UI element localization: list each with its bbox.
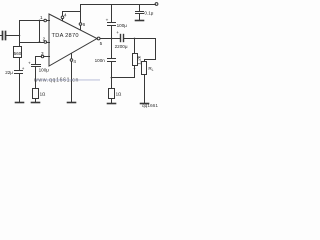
wire 1.2k down and left	[112, 66, 135, 78]
wire pin 1 feed	[20, 20, 44, 22]
terminal supply V+	[155, 3, 158, 6]
svg-text:1Ω: 1Ω	[40, 91, 46, 96]
capacitor 22u plates	[15, 70, 23, 72]
node output junction	[111, 38, 113, 40]
pin 3 circle	[41, 55, 44, 58]
wire zobel column lower	[111, 62, 113, 89]
wire 560 to 22u	[19, 58, 21, 71]
wire output from pin5	[101, 38, 121, 40]
pin 1 circle	[44, 19, 47, 22]
resistor 1.2k box	[133, 54, 138, 66]
svg-text:www.qq1661.cn: www.qq1661.cn	[34, 78, 79, 84]
wire 100u to output junction	[111, 26, 113, 39]
wire 22u to ground	[19, 74, 21, 102]
ground zobel	[108, 103, 116, 105]
wire rail drop to pin 6	[80, 5, 82, 23]
node pin1 tap	[39, 20, 41, 22]
resistor RL box	[142, 62, 147, 75]
wire 0.1u to ground	[139, 14, 141, 21]
wire output corner right edge	[155, 39, 157, 60]
wire pin7 stub	[71, 54, 73, 59]
capacitor 0.1u plates	[136, 11, 144, 13]
wire tap down to pin2 net	[39, 21, 41, 43]
svg-text:6: 6	[83, 22, 86, 27]
wire input to riser	[6, 35, 20, 37]
watermark dash	[36, 79, 101, 82]
ground left resistor	[32, 102, 40, 104]
wire zobel column upper	[111, 39, 113, 59]
capacitor 100u bootstrap stem from rail	[111, 5, 113, 23]
wire 1.2k from output node	[134, 39, 136, 54]
node zobel-feedback join	[111, 77, 113, 79]
svg-text:1Ω: 1Ω	[116, 92, 122, 97]
wire pin7 to ground	[71, 62, 73, 103]
wire input coupling	[1, 35, 3, 37]
capacitor 100u pin3 plates	[32, 64, 41, 66]
pin 5 circle output	[97, 37, 100, 40]
capacitor 2200u plates	[120, 35, 122, 42]
capacitor 100u plates	[108, 22, 116, 24]
node 1.2k tap	[134, 38, 136, 40]
svg-text:qq1661: qq1661	[142, 103, 158, 109]
wire pin3 stub	[44, 56, 50, 58]
capacitor 100n plates	[108, 58, 116, 60]
pin 6 circle	[79, 23, 82, 26]
wire to ground	[35, 99, 37, 103]
wire top supply rail	[81, 4, 156, 6]
wire pin1 stub	[47, 20, 50, 22]
ground under 0.1u	[136, 20, 144, 22]
wire pin 3 to cap column	[36, 57, 42, 64]
node pin2 tap	[39, 41, 41, 43]
wire RL to ground	[144, 75, 146, 103]
ground pin7	[68, 102, 76, 104]
svg-text:2200μ: 2200μ	[115, 44, 128, 49]
resistor 560 box	[14, 47, 22, 58]
wire to ground	[111, 99, 113, 103]
svg-text:100μ: 100μ	[117, 23, 128, 28]
svg-text:560: 560	[14, 51, 22, 56]
svg-text:TDA 2870: TDA 2870	[52, 33, 79, 39]
svg-text:1: 1	[40, 15, 43, 20]
pin 7 circle bottom	[70, 59, 73, 62]
svg-text:+: +	[106, 18, 109, 23]
op-amp U1 TDA2870 triangle	[49, 14, 97, 66]
wire pin 2 feed	[20, 42, 44, 44]
svg-text:2: 2	[43, 36, 46, 41]
wire pin 4 branch	[63, 11, 81, 13]
wire 100u to resistor	[35, 67, 37, 89]
svg-text:4: 4	[64, 13, 67, 18]
ground RL	[141, 103, 149, 105]
svg-text:3: 3	[41, 51, 44, 56]
svg-text:+: +	[116, 30, 119, 35]
svg-text:100μ: 100μ	[39, 67, 50, 72]
pin 2 circle	[44, 41, 47, 44]
svg-text:L: L	[152, 68, 154, 72]
resistor 1ohm box right	[109, 89, 115, 99]
svg-text:4: 4	[73, 59, 76, 64]
resistor 1ohm box left	[33, 89, 39, 99]
wire pin4 stub to triangle	[62, 19, 64, 21]
capacitor input coupling plates	[2, 32, 4, 40]
svg-text:100n: 100n	[95, 58, 106, 63]
capacitor 0.1u stem from rail	[139, 5, 141, 11]
svg-text:5: 5	[100, 41, 103, 46]
wire to RL column	[145, 60, 156, 62]
svg-text:22μ: 22μ	[5, 70, 13, 75]
node input join	[19, 35, 21, 37]
pin 4 circle	[61, 16, 64, 19]
wire pin2 stub	[47, 42, 50, 44]
svg-text:+: +	[22, 66, 25, 71]
ground under 22u	[16, 102, 24, 104]
svg-text:0.1μ: 0.1μ	[144, 11, 153, 16]
wire riser x19	[19, 21, 21, 47]
node 1.2k bottom	[134, 68, 136, 70]
svg-text:+: +	[28, 61, 31, 66]
svg-text:1.2k: 1.2k	[137, 55, 142, 65]
wire pin6 stub to triangle	[80, 26, 82, 30]
